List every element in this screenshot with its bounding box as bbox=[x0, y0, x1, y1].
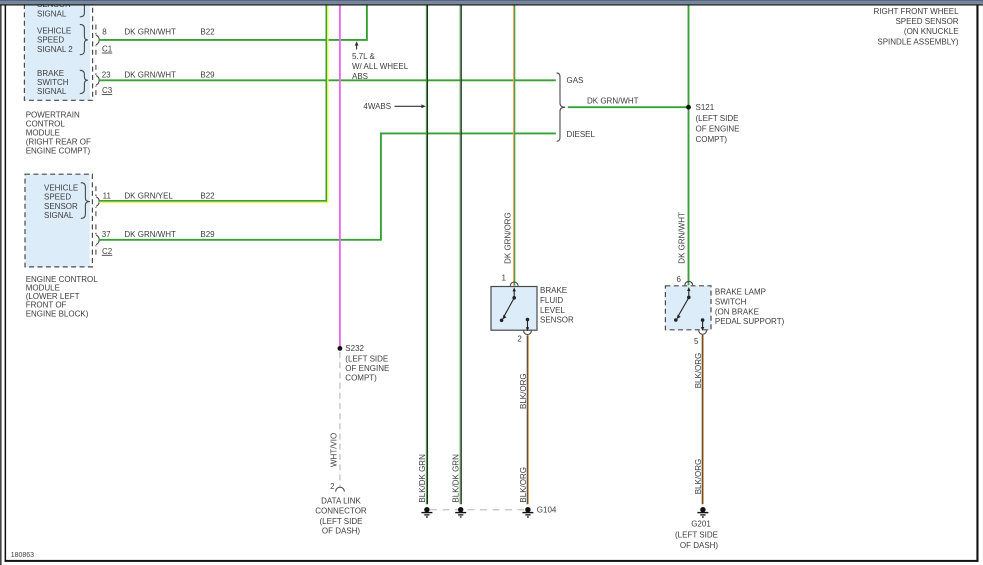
svg-text:5: 5 bbox=[694, 337, 699, 346]
ground splice middle (BLK/DK GRN) bbox=[455, 507, 466, 517]
ground G104 bbox=[522, 506, 557, 517]
svg-text:DATA LINK: DATA LINK bbox=[321, 497, 361, 506]
svg-text:COMPT): COMPT) bbox=[345, 374, 377, 383]
svg-text:BLK/DK GRN: BLK/DK GRN bbox=[452, 454, 461, 503]
wire: BLK/ORG from brake fluid level sensor pin 2 to G104 bbox=[527, 335, 528, 504]
svg-text:SIGNAL: SIGNAL bbox=[37, 87, 67, 96]
svg-text:VEHICLE: VEHICLE bbox=[37, 27, 71, 36]
ground bus dashed link bbox=[430, 509, 524, 511]
svg-text:B29: B29 bbox=[200, 70, 215, 79]
svg-text:SIGNAL: SIGNAL bbox=[44, 211, 74, 220]
note arrow 4WABS bbox=[363, 102, 425, 111]
svg-text:S121: S121 bbox=[696, 103, 715, 112]
svg-text:DK GRN/WHT: DK GRN/WHT bbox=[678, 212, 687, 264]
svg-text:1: 1 bbox=[501, 273, 506, 282]
ECM pin 11 connector bracket and arc bbox=[95, 186, 100, 217]
svg-text:DK GRN/YEL: DK GRN/YEL bbox=[124, 192, 173, 201]
svg-text:B22: B22 bbox=[200, 28, 215, 37]
svg-text:SIGNAL 2: SIGNAL 2 bbox=[37, 45, 73, 54]
ground splice left (BLK/DK GRN) bbox=[421, 507, 432, 517]
brake lamp switch label bbox=[715, 288, 785, 327]
wire: DK GRN/WHT from brace to S121 bbox=[568, 97, 689, 108]
svg-text:B29: B29 bbox=[200, 230, 215, 239]
svg-text:SENSOR: SENSOR bbox=[540, 316, 574, 325]
note arrow 5.7L & W/ ALL WHEEL ABS bbox=[352, 41, 409, 81]
PCM pin 23 connector C3 bracket and arc bbox=[95, 65, 100, 96]
svg-text:DK GRN/WHT: DK GRN/WHT bbox=[124, 70, 176, 79]
outer window left edge bbox=[0, 5, 1, 565]
svg-text:(ON BRAKE: (ON BRAKE bbox=[715, 307, 759, 316]
svg-text:ENGINE COMPT): ENGINE COMPT) bbox=[26, 147, 91, 156]
pin 23 labels bbox=[102, 70, 215, 95]
pin 11 labels bbox=[103, 192, 216, 201]
top toolbar strip bbox=[0, 0, 983, 6]
svg-text:DK GRN/ORG: DK GRN/ORG bbox=[503, 212, 512, 264]
ECM pin 37 connector C2 bracket and arc bbox=[95, 224, 100, 255]
wire: PCM pin 8 DK GRN/WHT B22 bbox=[99, 6, 367, 40]
svg-text:37: 37 bbox=[102, 230, 111, 239]
svg-text:5.7L &: 5.7L & bbox=[352, 52, 375, 61]
svg-text:DIESEL: DIESEL bbox=[567, 130, 596, 139]
svg-text:(LEFT SIDE: (LEFT SIDE bbox=[696, 114, 739, 123]
svg-text:OF ENGINE: OF ENGINE bbox=[345, 364, 389, 373]
svg-text:2: 2 bbox=[330, 482, 335, 491]
svg-text:DK GRN/WHT: DK GRN/WHT bbox=[124, 28, 176, 37]
svg-text:(RIGHT REAR OF: (RIGHT REAR OF bbox=[26, 138, 91, 147]
PCM pin 8 connector C1 bracket and arc bbox=[95, 25, 100, 56]
brake fluid level sensor bbox=[491, 273, 537, 343]
wire: WHT/VIO vertical bbox=[339, 6, 341, 349]
svg-text:SPEED: SPEED bbox=[44, 193, 71, 202]
pin 37 labels bbox=[102, 230, 215, 256]
ground G201 bbox=[675, 507, 718, 550]
brace sensor signal group (cut at top) bbox=[80, 0, 88, 17]
brake fluid level sensor label bbox=[540, 286, 574, 324]
svg-text:23: 23 bbox=[102, 70, 111, 79]
svg-text:BLK/ORG: BLK/ORG bbox=[519, 373, 528, 409]
svg-text:S232: S232 bbox=[345, 344, 364, 353]
powertrain control module box bbox=[24, 0, 92, 100]
wire: BLK/ORG from brake lamp switch pin 5 to G201 bbox=[702, 335, 703, 504]
svg-text:VEHICLE: VEHICLE bbox=[44, 183, 78, 192]
wire: WHT/VIO dashed to data link connector bbox=[339, 352, 341, 487]
svg-text:C3: C3 bbox=[102, 86, 113, 95]
svg-text:COMPT): COMPT) bbox=[696, 135, 728, 144]
svg-text:PEDAL SUPPORT): PEDAL SUPPORT) bbox=[715, 317, 785, 326]
svg-text:W/ ALL WHEEL: W/ ALL WHEEL bbox=[352, 62, 409, 71]
svg-text:CONTROL: CONTROL bbox=[26, 119, 66, 128]
svg-text:CONNECTOR: CONNECTOR bbox=[315, 507, 367, 516]
svg-text:OF DASH): OF DASH) bbox=[322, 527, 361, 536]
svg-text:180863: 180863 bbox=[11, 552, 34, 559]
brake lamp switch bbox=[665, 275, 711, 346]
svg-text:(LEFT SIDE: (LEFT SIDE bbox=[320, 517, 363, 526]
svg-text:6: 6 bbox=[677, 275, 682, 284]
svg-text:BRAKE: BRAKE bbox=[540, 286, 567, 295]
svg-text:OF DASH): OF DASH) bbox=[680, 541, 719, 550]
svg-text:BRAKE LAMP: BRAKE LAMP bbox=[715, 288, 766, 297]
wire: DK GRN/ORG vertical to brake fluid level sensor pin 1 bbox=[514, 6, 515, 286]
wire: PCM pin 23 DK GRN/WHT B29 (GAS branch) bbox=[99, 79, 556, 81]
splice S121 bbox=[686, 103, 739, 144]
svg-text:G104: G104 bbox=[537, 506, 557, 515]
svg-text:ENGINE BLOCK): ENGINE BLOCK) bbox=[26, 309, 89, 318]
ECM label bbox=[26, 275, 99, 318]
data link connector pin 2 arc bbox=[330, 482, 344, 491]
svg-text:GAS: GAS bbox=[567, 76, 584, 85]
svg-text:DK GRN/WHT: DK GRN/WHT bbox=[587, 97, 639, 106]
svg-text:RIGHT FRONT WHEEL: RIGHT FRONT WHEEL bbox=[874, 7, 960, 16]
svg-text:LEVEL: LEVEL bbox=[540, 306, 565, 315]
svg-text:G201: G201 bbox=[691, 520, 711, 529]
svg-text:OF ENGINE: OF ENGINE bbox=[696, 124, 740, 133]
svg-text:BLK/ORG: BLK/ORG bbox=[519, 467, 528, 503]
svg-text:8: 8 bbox=[102, 28, 107, 37]
svg-text:2: 2 bbox=[517, 334, 522, 343]
engine control module box bbox=[25, 174, 92, 267]
svg-text:SENSOR: SENSOR bbox=[44, 202, 78, 211]
svg-text:SIGNAL: SIGNAL bbox=[37, 9, 67, 18]
svg-text:SPEED SENSOR: SPEED SENSOR bbox=[895, 17, 958, 26]
svg-text:WHT/VIO: WHT/VIO bbox=[329, 433, 338, 467]
svg-text:11: 11 bbox=[103, 192, 112, 201]
wire: ECM pin 11 DK GRN/YEL B22 bbox=[99, 6, 328, 203]
svg-text:POWERTRAIN: POWERTRAIN bbox=[26, 110, 80, 119]
svg-text:MODULE: MODULE bbox=[26, 128, 60, 137]
PCM label bbox=[26, 110, 91, 155]
svg-text:BLK/ORG: BLK/ORG bbox=[694, 459, 703, 495]
wire: ECM pin 37 DK GRN/WHT B29 (DIESEL branch) bbox=[99, 133, 556, 239]
svg-text:SWITCH: SWITCH bbox=[715, 298, 747, 307]
svg-text:DK GRN/WHT: DK GRN/WHT bbox=[124, 230, 176, 239]
brace vehicle speed sensor signal group bbox=[81, 183, 90, 219]
svg-text:(LEFT SIDE: (LEFT SIDE bbox=[345, 354, 388, 363]
wire: DK GRN/WHT vertical to brake lamp switch pin 6 bbox=[688, 6, 690, 286]
wire: BLK/DK GRN left vertical bbox=[426, 6, 427, 505]
svg-text:C2: C2 bbox=[102, 247, 113, 256]
right front wheel speed sensor note bbox=[874, 7, 960, 47]
pin 8 labels bbox=[102, 28, 215, 54]
svg-text:BLK/DK GRN: BLK/DK GRN bbox=[418, 454, 427, 503]
splice S232 bbox=[338, 344, 390, 382]
brace merging GAS and DIESEL wires bbox=[557, 73, 596, 141]
svg-text:(LEFT SIDE: (LEFT SIDE bbox=[675, 530, 718, 539]
svg-text:SWITCH: SWITCH bbox=[37, 78, 69, 87]
brace brake switch signal group bbox=[80, 70, 88, 93]
svg-text:B22: B22 bbox=[200, 192, 215, 201]
svg-text:BRAKE: BRAKE bbox=[37, 69, 64, 78]
svg-text:FLUID: FLUID bbox=[540, 296, 563, 305]
brace vehicle speed signal 2 group bbox=[80, 24, 88, 54]
svg-text:SPINDLE ASSEMBLY): SPINDLE ASSEMBLY) bbox=[877, 37, 959, 46]
data link connector label bbox=[315, 497, 367, 536]
svg-text:C1: C1 bbox=[102, 45, 113, 54]
svg-text:(ON KNUCKLE: (ON KNUCKLE bbox=[904, 27, 959, 36]
svg-text:SPEED: SPEED bbox=[37, 36, 64, 45]
svg-text:4WABS: 4WABS bbox=[363, 102, 391, 111]
svg-text:BLK/ORG: BLK/ORG bbox=[694, 353, 703, 389]
wire: BLK/DK GRN right vertical bbox=[460, 6, 461, 505]
